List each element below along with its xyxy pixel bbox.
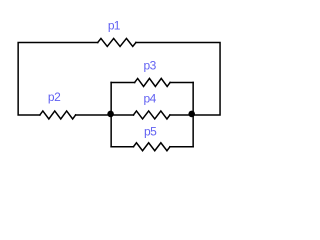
wire left branch riser bbox=[110, 82, 112, 146]
resistor p2 bbox=[40, 111, 76, 119]
wire mid branch right lead bbox=[170, 114, 193, 116]
wire p2 to node A bbox=[76, 114, 112, 116]
wire bottom branch left lead bbox=[111, 146, 133, 148]
wire top branch right lead bbox=[170, 81, 193, 83]
svg-text:p1: p1 bbox=[108, 18, 121, 32]
resistor p3 bbox=[135, 78, 171, 86]
wire top-right segment bbox=[136, 42, 220, 115]
node A junction dot bbox=[107, 111, 114, 118]
wire top branch left lead bbox=[111, 81, 135, 83]
svg-text:p4: p4 bbox=[144, 92, 157, 106]
resistor p1 bbox=[98, 38, 136, 46]
wire right branch riser bbox=[192, 82, 194, 146]
wire top-left segment bbox=[18, 42, 98, 115]
resistor p4 bbox=[133, 111, 170, 119]
wire mid branch left lead bbox=[111, 114, 133, 116]
node B junction dot bbox=[188, 111, 195, 118]
svg-text:p5: p5 bbox=[144, 124, 157, 138]
wire bottom branch right lead bbox=[170, 146, 193, 148]
resistor p5 bbox=[133, 143, 170, 151]
svg-text:p3: p3 bbox=[144, 59, 157, 73]
svg-text:p2: p2 bbox=[48, 90, 61, 104]
